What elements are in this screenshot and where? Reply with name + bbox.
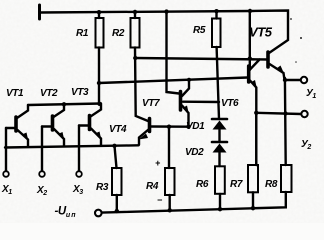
node dot VT7 collector junction xyxy=(187,78,191,82)
node dot R1/VT1-3 collector rail xyxy=(97,102,101,106)
wire node A line to VT6 base xyxy=(99,78,248,84)
node dot R6 bottom xyxy=(218,207,222,211)
wire bottom supply rail xyxy=(102,192,286,213)
speck xyxy=(290,18,292,20)
wire R2 bottom to VT4 base xyxy=(135,48,148,122)
node dot R7 bottom xyxy=(251,206,255,210)
resistor R8 xyxy=(281,165,292,192)
wire VT5 emitter / output vertical xyxy=(284,78,287,165)
resistor R7 xyxy=(255,112,257,165)
node dot R3 bottom xyxy=(115,209,119,213)
node dot VT6 emitter / output 2 line xyxy=(254,111,258,115)
node dot on output vertical xyxy=(283,111,287,115)
svg-text:VT5: VT5 xyxy=(249,25,273,40)
transistor VT1 xyxy=(14,117,18,131)
speck xyxy=(300,37,302,39)
resistor R4 xyxy=(165,168,175,195)
svg-text:R7: R7 xyxy=(230,179,243,190)
speck xyxy=(295,61,297,63)
svg-text:VT7: VT7 xyxy=(142,98,160,109)
resistor R2 xyxy=(134,12,136,18)
resistor R5 xyxy=(215,11,217,19)
terminal X3 xyxy=(76,171,82,177)
svg-text:R3: R3 xyxy=(96,182,109,193)
transistor VT6 xyxy=(249,11,251,70)
svg-text:VT6: VT6 xyxy=(221,98,239,109)
transistor VT3 xyxy=(88,116,92,130)
node dot R2 / VT5 base line xyxy=(133,56,137,60)
svg-text:R2: R2 xyxy=(112,28,125,39)
terminal X2 xyxy=(39,171,45,177)
svg-text:VT4: VT4 xyxy=(109,124,127,135)
node dot R4 bottom xyxy=(168,208,172,212)
wire VT1-3 collector rail xyxy=(28,104,101,106)
svg-text:VT3: VT3 xyxy=(71,87,89,98)
node dot R3 top xyxy=(112,144,116,148)
wire VT4 collector line xyxy=(151,125,189,128)
diode VD2 xyxy=(212,141,227,144)
terminal Y1 xyxy=(301,77,307,83)
wire common emitter rail xyxy=(5,145,139,147)
terminal -Uip xyxy=(95,210,102,217)
node dot VT7 collector on rail xyxy=(164,9,168,13)
transistor VT5 xyxy=(250,11,288,54)
transistor VT2 xyxy=(51,116,55,130)
node dot at x250 vertical xyxy=(248,56,252,60)
transistor VT4 xyxy=(148,119,152,132)
wire R1 bottom xyxy=(98,48,100,105)
positive supply terminal tick xyxy=(38,5,41,19)
svg-text:R1: R1 xyxy=(76,28,89,39)
node dot above R2 xyxy=(133,10,137,14)
svg-text:R6: R6 xyxy=(196,179,209,190)
terminal X1 xyxy=(3,171,9,177)
node dot R4 top branch xyxy=(167,125,171,129)
wire input 2 xyxy=(41,127,43,172)
node dot VT7 emitter xyxy=(186,125,190,129)
node A dot R1/collector-line xyxy=(97,81,101,85)
wire VT7 base to R5/VD node xyxy=(183,100,219,103)
wire output-2 line xyxy=(256,113,301,114)
diode VD1 xyxy=(212,118,227,121)
svg-text:VT2: VT2 xyxy=(40,88,58,99)
wire R4 feed xyxy=(168,127,170,168)
resistor R3 xyxy=(115,146,117,168)
svg-text:VT1: VT1 xyxy=(6,88,24,99)
wire input 3 xyxy=(78,126,80,172)
wire top supply rail xyxy=(40,11,250,13)
svg-text:R5: R5 xyxy=(193,25,206,36)
node dot above R5 xyxy=(214,9,218,13)
svg-text:VD1: VD1 xyxy=(186,121,205,132)
wire input 1 xyxy=(5,128,7,171)
terminal Y2 xyxy=(301,111,307,117)
node dot VT2 collector xyxy=(62,102,66,106)
node dot rail right end xyxy=(248,9,252,13)
resistor R1 xyxy=(98,12,100,18)
svg-text:R8: R8 xyxy=(265,179,278,190)
node dot above R1 xyxy=(97,10,101,14)
transistor VT7 xyxy=(167,12,180,94)
svg-text:R4: R4 xyxy=(146,181,159,192)
wire VT5 base line xyxy=(135,58,267,60)
wire R5 bottom to VD1 xyxy=(217,47,219,119)
resistor R6 xyxy=(215,166,225,194)
svg-text:VD2: VD2 xyxy=(185,147,204,158)
node dot output 1 xyxy=(283,78,287,82)
wire output 1 stub xyxy=(285,79,301,81)
